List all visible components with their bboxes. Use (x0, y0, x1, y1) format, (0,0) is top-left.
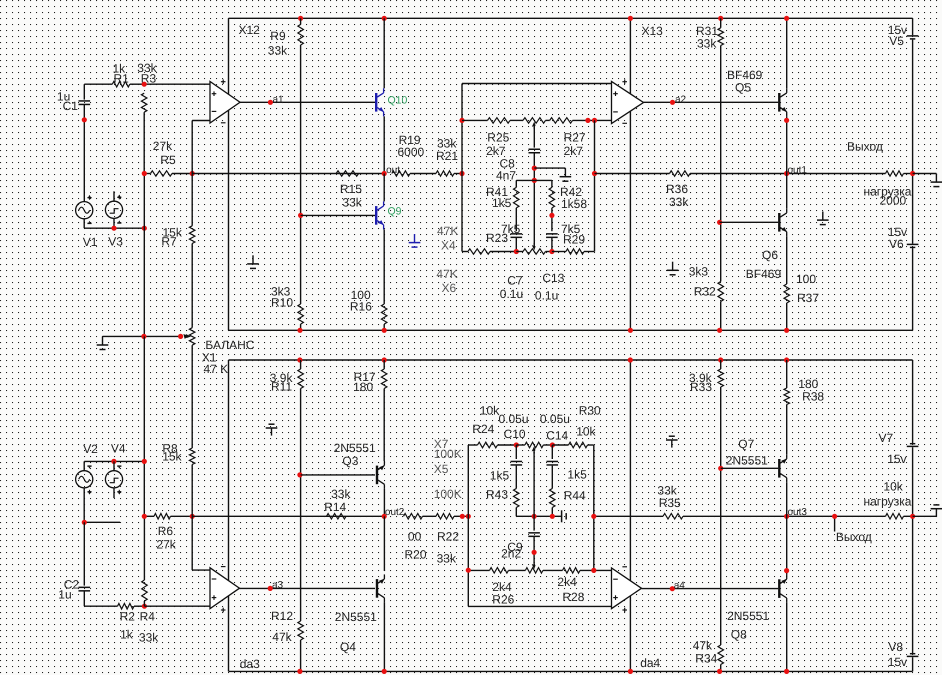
op-amp a4 (da4) (612, 567, 642, 613)
resistor R7 (189, 226, 195, 244)
wire C9 to X5 wiper (533, 537, 535, 564)
svg-text:R34: R34 (695, 652, 717, 666)
svg-text:V6: V6 (889, 237, 904, 251)
wire X7 to junction (543, 444, 552, 446)
junction Q5 collector top (784, 16, 789, 21)
resistor R4 (142, 580, 148, 601)
junction R38 top (784, 357, 789, 362)
transistor Q4 (377, 574, 385, 602)
label 100 R16 value (351, 288, 371, 302)
label R35 (659, 496, 681, 510)
wire Q7 base (721, 467, 779, 469)
wire C1 top vertical (83, 84, 85, 99)
label 1k R2 value (120, 627, 134, 641)
label 27k (153, 139, 173, 153)
label Q7 (738, 437, 754, 451)
wire X6 to junction (546, 251, 552, 253)
wire da4 vertical (629, 360, 631, 671)
svg-text:R10: R10 (271, 295, 293, 309)
wire a1 inv input (192, 120, 210, 122)
junction Q4 bottom (382, 669, 387, 674)
svg-text:R9: R9 (270, 29, 286, 43)
label 2N5551 Q4 (335, 610, 377, 624)
svg-text:10k: 10k (480, 403, 500, 417)
label 6000 (398, 145, 425, 159)
label R22 (437, 529, 459, 543)
op-amp a3 (da3) (210, 567, 240, 613)
label Q3 (342, 454, 358, 468)
transistor Q3 (377, 461, 385, 489)
resistor R20 (404, 514, 423, 520)
wire to top load ground (913, 173, 937, 175)
wire R4 leads (143, 516, 145, 606)
svg-text:33k: 33k (697, 37, 717, 51)
label X4 (441, 238, 456, 252)
resistor R33 (718, 369, 724, 387)
wire V4 top (113, 461, 115, 470)
svg-text:R12: R12 (271, 609, 293, 623)
capacitor C13 (546, 234, 558, 238)
wire filter left vertical (461, 84, 463, 252)
junction out1 node (784, 171, 789, 176)
junction out node (382, 171, 387, 176)
svg-text:R25: R25 (487, 131, 509, 145)
label R2 (120, 609, 136, 623)
wire C2 top lead (83, 522, 85, 585)
label 2N5551 Q8 (727, 609, 769, 623)
wire out2 mid segment (534, 515, 561, 517)
wire a2 output (644, 101, 779, 103)
ground blue near Q9 (409, 234, 421, 247)
resistor R14 (327, 514, 347, 520)
wire Q3 collector down (383, 489, 385, 516)
label R15 (340, 182, 362, 196)
label R28 (562, 590, 584, 604)
wire X5 to R28 (543, 569, 563, 571)
svg-text:2n2: 2n2 (501, 546, 521, 560)
svg-text:Q4: Q4 (340, 640, 356, 654)
power rail box bottom right edge segments (912, 360, 914, 671)
label 33k R9 value (268, 44, 288, 58)
wire V2 bottom (83, 488, 85, 522)
junction a3 output node (268, 586, 273, 591)
junction R17 top (382, 357, 387, 362)
ground mid right (817, 212, 829, 225)
wire C10 to R43 (515, 466, 517, 489)
junction a2 output node (670, 100, 675, 105)
load resistor top (886, 171, 904, 176)
label 33k R14 value (331, 487, 351, 501)
wire R7 leads (191, 174, 193, 328)
junction V1V3 to main vertical (142, 226, 147, 231)
label R38 (802, 390, 824, 404)
resistor R25 (488, 118, 511, 124)
wire out1 mid (690, 173, 886, 175)
label 1u C2 (58, 588, 71, 602)
svg-text:da3: da3 (240, 657, 260, 671)
label 1k5 R44 value (567, 467, 587, 481)
svg-text:2N5551: 2N5551 (334, 441, 376, 455)
wire R42 branch (551, 180, 553, 187)
wire R21 to net left vert (454, 173, 462, 175)
wire filter2 chain top left (468, 444, 477, 446)
wire C7 to bottom chain (515, 238, 517, 252)
resistor R37 (784, 284, 790, 303)
junction top chain C14 (550, 442, 555, 447)
source V4 (105, 466, 122, 495)
junction V2V4 main vert (142, 459, 147, 464)
label V1 (83, 235, 98, 249)
wire to R29 (552, 251, 566, 253)
svg-text:1k5: 1k5 (490, 469, 510, 483)
power rail box da3/da4 top (229, 359, 913, 361)
wire R41 branch (515, 180, 517, 187)
wire R17 to Q3 emitter (383, 389, 385, 462)
potentiometer X4 (523, 118, 546, 129)
label 33k R36 value (669, 195, 689, 209)
wire C1 bottom to V1 (83, 105, 85, 202)
junction out1 rail (910, 171, 915, 176)
junction da4 bottom (628, 669, 633, 674)
junction bottom chain C7 (514, 249, 519, 254)
svg-text:R16: R16 (350, 299, 372, 313)
wire V4 bottom stub (113, 488, 115, 498)
wire R42 to C13 (551, 208, 553, 231)
label da3 (240, 657, 260, 671)
junction R9 top (298, 16, 303, 21)
svg-text:33k: 33k (437, 552, 457, 566)
svg-text:33k: 33k (342, 196, 362, 210)
junction V2 bottom (82, 520, 87, 525)
wire R9 to Q9 base junction to R10 (300, 45, 302, 304)
svg-text:100: 100 (796, 272, 816, 286)
svg-text:R35: R35 (659, 496, 681, 510)
wire R38 lead (786, 360, 788, 388)
resistor R26 (490, 568, 509, 574)
svg-text:R30: R30 (579, 403, 601, 417)
wire Q5 emitter down (786, 116, 788, 173)
label Vyhod bottom (836, 530, 872, 544)
wire Vyhod stub (834, 516, 836, 531)
junction V4 top (111, 459, 116, 464)
power rail box right edge segments (912, 18, 914, 330)
potentiometer X7 (525, 442, 543, 453)
label 47K X4 value (437, 224, 458, 238)
wire R24 to junction (498, 444, 517, 446)
label 10k R24 value (480, 403, 500, 417)
ground top load (931, 174, 942, 187)
svg-text:27k: 27k (153, 139, 173, 153)
wire R34 bottom lead (720, 665, 722, 672)
wire X13 vertical (629, 18, 631, 330)
svg-text:da4: da4 (640, 656, 660, 670)
wire a3 output (240, 587, 376, 589)
label R32 (694, 284, 716, 298)
svg-text:2N5551: 2N5551 (727, 609, 769, 623)
svg-text:R26: R26 (492, 593, 514, 607)
label 47 K X1 value (204, 362, 229, 376)
junction C9 bottom (532, 550, 537, 555)
label X7 (434, 437, 449, 451)
wire R44 to out2 mid (551, 508, 553, 517)
wire a4 +in (468, 605, 611, 607)
wire R20-R22 (423, 515, 437, 517)
junction top chain C10 (514, 442, 519, 447)
svg-text:Q10: Q10 (388, 94, 408, 106)
label 2000 (880, 194, 907, 208)
wire a1 output (240, 101, 375, 103)
svg-text:00: 00 (408, 530, 422, 544)
label C8 (500, 157, 516, 171)
svg-text:0.1u: 0.1u (535, 288, 558, 302)
svg-text:0.05u: 0.05u (540, 412, 570, 426)
label R17 (354, 370, 376, 384)
svg-text:0.05u: 0.05u (499, 412, 529, 426)
svg-text:2N5551: 2N5551 (726, 453, 768, 467)
junction C1 bottom (82, 117, 87, 122)
svg-text:33k: 33k (669, 195, 689, 209)
resistor R41 (514, 187, 520, 208)
wire C13 to bottom chain (551, 238, 553, 252)
wire bottom chain left (462, 251, 468, 253)
junction out2 node (382, 514, 387, 519)
svg-text:a3: a3 (272, 580, 284, 591)
junction Q6 base wire (717, 220, 722, 225)
svg-text:Выход: Выход (836, 530, 872, 544)
label Q8 (731, 628, 747, 642)
label 0.1u C7 (500, 287, 523, 301)
svg-text:R21: R21 (436, 149, 458, 163)
label C1 (63, 99, 79, 113)
wire R9 lead (300, 18, 302, 24)
label BALANS (205, 338, 254, 352)
wire R43 to out2 mid (516, 508, 534, 517)
wire Q8 collector to rail (786, 603, 788, 672)
svg-text:X4: X4 (441, 238, 456, 252)
label R30 (579, 403, 601, 417)
label BF469 Q6 (746, 267, 782, 281)
label R19 (399, 133, 421, 147)
svg-text:15v: 15v (887, 452, 906, 466)
svg-text:Выход: Выход (847, 140, 883, 154)
wire filter2 left vertical (467, 445, 469, 606)
wire a3 inv input vertical (191, 516, 193, 570)
ground inverted near a3 (266, 424, 278, 435)
label da4 (640, 656, 660, 670)
wire out3 left (594, 515, 663, 517)
wire V1-V3 bottom link (84, 227, 144, 229)
wire Q4 collector to rail (383, 602, 385, 671)
junction chain end dot1 (585, 118, 590, 123)
svg-text:R28: R28 (562, 590, 584, 604)
wire Q10 collector (383, 18, 385, 88)
label 1u (57, 89, 70, 103)
label 1k58 (561, 197, 587, 211)
ground out2 right (561, 510, 567, 522)
op-amp a1 (X12) (210, 79, 240, 123)
label 2N5551 Q3 (334, 441, 376, 455)
label 33k R22 value (437, 552, 457, 566)
svg-text:R32: R32 (694, 284, 716, 298)
label 100K X7 value (434, 447, 462, 461)
label 15k R8 value (162, 450, 182, 464)
label 33k R3 value (137, 61, 157, 75)
svg-text:2k7: 2k7 (564, 144, 584, 158)
label C9 (507, 540, 523, 554)
resistor R35 (663, 514, 683, 520)
svg-text:V1: V1 (83, 235, 98, 249)
resistor R31 (718, 28, 724, 46)
resistor R24 (478, 442, 498, 448)
label X13 (642, 24, 664, 38)
svg-text:R44: R44 (564, 489, 586, 503)
wire R3 junction to opamp a1 +in (144, 83, 210, 85)
junction R31 top (718, 16, 723, 21)
label 3k3 R32 value (689, 264, 709, 278)
label a3 (272, 580, 284, 591)
svg-text:R7: R7 (161, 234, 177, 248)
svg-text:2N5551: 2N5551 (335, 610, 377, 624)
junction Vyhod stub (832, 514, 837, 519)
junction chain2 right (591, 568, 596, 573)
junction a4 output node (670, 586, 675, 591)
label 1k (113, 62, 127, 76)
label Vyhod top (847, 140, 883, 154)
transistor Q7 (779, 454, 787, 482)
svg-text:15v: 15v (888, 655, 907, 669)
label 2k4 R28 value (557, 575, 577, 589)
capacitor C7 (511, 234, 523, 238)
wire R37 bottom lead (786, 303, 788, 330)
wire to filter ground (534, 167, 565, 169)
wire filter top to a2 +in (462, 83, 612, 85)
label R41 (486, 185, 508, 199)
wire R5 to R7 junction (172, 173, 192, 175)
transistor Q6 (779, 208, 787, 236)
label R3 (141, 71, 157, 85)
wire out1 to Q6 collector (786, 174, 788, 209)
capacitor C8 (529, 149, 541, 153)
label 180 R38 value (798, 377, 818, 391)
potentiometer X5 (525, 562, 543, 573)
resistor R15 (336, 171, 359, 176)
wire V2 top (83, 461, 85, 470)
wire Q9 base (301, 214, 375, 216)
svg-text:15k: 15k (162, 450, 182, 464)
label C13 (542, 271, 564, 285)
junction out2 R44 (550, 514, 555, 519)
svg-text:R5: R5 (160, 153, 176, 167)
resistor R19 (392, 171, 410, 176)
svg-text:4n7: 4n7 (496, 169, 516, 183)
svg-text:R43: R43 (486, 487, 508, 501)
label R4 (140, 609, 156, 623)
power rail box left edge (228, 18, 230, 330)
resistor R44 (550, 489, 556, 508)
wire R10 bottom lead (300, 324, 302, 330)
wire R41 to C7 (515, 208, 517, 231)
wire R17 lead (383, 360, 385, 369)
resistor R28 (563, 568, 581, 574)
label R20 (405, 548, 427, 562)
wire R33 lead (720, 360, 722, 369)
label 47k R12 value (272, 630, 292, 644)
junction chain end dot2 (592, 118, 597, 123)
resistor R8 (189, 448, 195, 465)
label Q6 (762, 248, 778, 262)
svg-text:R3: R3 (141, 71, 157, 85)
svg-text:R29: R29 (563, 232, 585, 246)
label C14 (546, 428, 568, 442)
junction R10 bottom (297, 328, 302, 333)
label 7k5 R29 value (561, 222, 581, 236)
resistor R42 (549, 187, 555, 208)
capacitor C2 (79, 587, 91, 591)
label 27k R6 value (156, 538, 176, 552)
label X6 (442, 281, 457, 295)
wire R32 bottom lead (720, 302, 722, 331)
svg-text:R37: R37 (797, 291, 819, 305)
wire out2 line mid (192, 515, 384, 517)
label R16 (350, 299, 372, 313)
svg-text:47 K: 47 K (204, 362, 229, 376)
label 00 R20 value (408, 530, 422, 544)
junction out3 chain (591, 514, 596, 519)
junction R6 left (142, 514, 147, 519)
resistor R3 (141, 93, 147, 112)
junction R2/R4 (142, 604, 147, 609)
label out1 (788, 165, 808, 176)
svg-text:1u: 1u (58, 588, 71, 602)
svg-text:47K: 47K (436, 267, 457, 281)
wire C1 top to R1 (84, 83, 112, 85)
junction chain2 left (466, 568, 471, 573)
ground filter mid (560, 168, 572, 181)
label 0:05u C14 (540, 412, 570, 426)
label R24 (472, 422, 494, 436)
label 33k R15 value (342, 196, 362, 210)
resistor R38 (784, 388, 790, 405)
wire Q3 base (301, 474, 375, 476)
label R10 (271, 295, 293, 309)
label Q10 (388, 94, 408, 106)
wire to R41 top (516, 179, 534, 181)
svg-text:X6: X6 (442, 281, 457, 295)
resistor R22 (436, 514, 454, 520)
svg-text:C1: C1 (63, 99, 79, 113)
resistor R29 (566, 249, 584, 254)
svg-text:V7: V7 (879, 431, 894, 445)
label 1k5 R43 value (490, 469, 510, 483)
wire X7 wiper to C9 (533, 452, 535, 531)
wire to R42 top (534, 179, 552, 181)
junction balance main vert (141, 334, 146, 339)
wire out line left (144, 173, 150, 175)
svg-text:R1: R1 (114, 71, 130, 85)
label 10k R30 value (576, 425, 596, 439)
svg-text:out3: out3 (788, 507, 808, 518)
label 4n7 (496, 169, 516, 183)
wire filter chain y120 left (462, 119, 488, 121)
label X1 (202, 351, 217, 365)
ground bottom load (931, 505, 942, 516)
svg-text:Q6: Q6 (762, 248, 778, 262)
label R37 (797, 291, 819, 305)
transistor Q10 (376, 88, 384, 116)
label 15v V5 (888, 23, 907, 37)
label 2N5551 Q7 (726, 453, 768, 467)
svg-text:нагрузка: нагрузка (864, 495, 912, 509)
